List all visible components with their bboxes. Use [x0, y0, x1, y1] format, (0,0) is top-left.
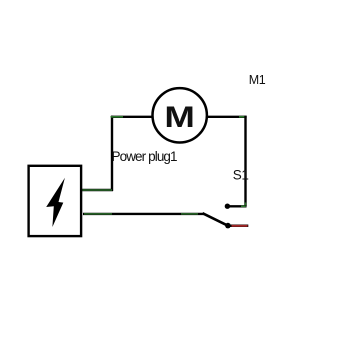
wire: motor left lead from circle to corner node [111, 116, 152, 118]
wire: vertical from corner down to power plug top terminal level [111, 116, 113, 191]
motor M1 component circle [153, 88, 207, 142]
switch S1 unconnected pin lead (red) [228, 225, 248, 228]
green connection tint at motor-left corner node [111, 116, 124, 118]
svg-text:M: M [164, 101, 195, 134]
switch S1 top terminal junction dot [225, 204, 230, 209]
green connection tint at switch lever pin [181, 213, 198, 215]
switch S1 lever arm [203, 213, 228, 226]
wire: motor right lead from circle to top-right corner [208, 116, 247, 118]
svg-text:Power plug1: Power plug1 [112, 149, 178, 164]
power plug1 component body [29, 166, 82, 236]
green connection tint at bottom of vertical wire [245, 203, 247, 207]
svg-text:M1: M1 [249, 73, 266, 87]
green connection tint at power plug bottom pin [84, 213, 112, 215]
wire: power plug top terminal to vertical riser (green) [81, 189, 113, 192]
switch S1 lever pivot junction dot [225, 223, 231, 229]
svg-text:S1: S1 [233, 167, 249, 182]
wire: vertical from top-right corner down to switch S1 top pin [244, 116, 246, 207]
wire: power plug bottom terminal to switch lever [83, 213, 204, 215]
wire: switch S1 top pin lead (horizontal to junction dot) [227, 205, 246, 207]
green connection tint at motor-right corner node [239, 116, 246, 118]
power plug1 lightning bolt icon [46, 178, 65, 227]
